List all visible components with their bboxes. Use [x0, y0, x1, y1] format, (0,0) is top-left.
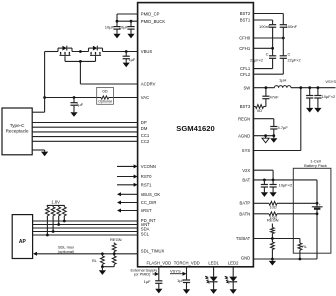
svg-text:SCL: SCL [141, 232, 150, 237]
wire BST3 pin to resistor [253, 106, 255, 108]
svg-text:AP: AP [19, 239, 27, 245]
wire GND pin line to pack [253, 258, 317, 260]
ground under C6 [183, 289, 190, 294]
wire SBU [32, 131, 137, 133]
svg-text:Optional: Optional [98, 100, 112, 104]
capacitor C13 47nF bootstrap [262, 95, 269, 97]
wire branch2 fly cap to CFL2 [282, 58, 284, 74]
svg-text:SW: SW [243, 85, 250, 90]
svg-text:PMID_CP: PMID_CP [141, 12, 160, 17]
wire bus line 4 [33, 231, 138, 233]
capacitor C5 1uF on FLASH_VDD [155, 280, 162, 282]
wire BATN sense line [253, 213, 269, 215]
svg-text:47nF: 47nF [270, 95, 280, 100]
wire TS/BAT pin line [253, 238, 300, 240]
op-amp U1 SGM41620 charger IC body [138, 3, 254, 267]
wire BST2 to branch [253, 13, 283, 15]
capacitor C3 1uF on VBUS [125, 52, 127, 56]
node junction R3 to bus [52, 230, 55, 233]
arrow VSYS into TORCH_VDD node [170, 273, 184, 275]
svg-text:VCONN: VCONN [141, 164, 156, 169]
svg-text:VAC: VAC [141, 95, 149, 100]
svg-text:nRST: nRST [141, 208, 152, 213]
wire nRST output arrow [120, 210, 138, 212]
capacitor C4 1uF on VAC [73, 98, 75, 103]
svg-text:Battery Pack: Battery Pack [304, 163, 327, 168]
node junction R2 to SCL [46, 234, 49, 237]
svg-text:+: + [319, 203, 321, 207]
node junction VBUS at C3 [125, 50, 128, 53]
svg-text:0Ω: 0Ω [102, 89, 107, 94]
wire TS to NTC in pack [299, 239, 301, 244]
wire cell minus down to pack ground [316, 209, 318, 259]
svg-text:ACDRV: ACDRV [141, 82, 156, 87]
svg-text:BST2: BST2 [240, 11, 251, 16]
svg-text:nBUS_OK: nBUS_OK [141, 192, 161, 197]
svg-text:C: C [266, 51, 269, 56]
resistor R4 pull-up [58, 205, 60, 207]
ground on GND net [271, 259, 273, 261]
node junction CFH0 branch2 [282, 37, 285, 40]
wire Type-C GND stub [32, 149, 44, 151]
ground under C12 [314, 108, 321, 113]
wire branch1 C7 to CFH1 [272, 27, 274, 55]
node junction AGND open ground [264, 134, 267, 137]
svg-text:1µF: 1µF [177, 278, 185, 283]
svg-text:REGN: REGN [267, 218, 279, 223]
wire branch2 C8 to fly cap [282, 27, 284, 55]
Type-C receptacle connector box [2, 108, 32, 155]
wire PMID_BUCK from U1 [117, 20, 138, 22]
node junction R4 to nINT [57, 223, 60, 226]
svg-text:DM: DM [141, 126, 148, 131]
wire CFH0 pin [253, 37, 283, 39]
ground for REGN cap [273, 136, 275, 139]
svg-text:10µF: 10µF [105, 25, 115, 30]
wire gate bus to ACDRV pin [79, 61, 81, 84]
resistor R8 SDL mux lower [113, 254, 115, 256]
wire nBUS_OK output arrow [120, 193, 138, 195]
svg-text:0Ω: 0Ω [257, 109, 262, 113]
svg-text:BAT: BAT [242, 178, 250, 183]
capacitor C2 10uF on PMID [130, 21, 132, 26]
resistor R14 NTC thermistor in pack [298, 243, 302, 250]
wire gate bus of Q1 Q2 [64, 57, 66, 62]
wire DP [32, 122, 137, 124]
node junction BAT at C15 [263, 179, 266, 182]
capacitor C11 10uF on VSYS [309, 88, 311, 96]
ground under C5 [155, 289, 162, 294]
node junction R5 to PD_INT [63, 220, 66, 223]
svg-text:TS/BAT: TS/BAT [236, 236, 251, 241]
capacitor C1 10uF on PMID_CP/PMID_BUCK [116, 21, 118, 26]
resistor R11 10ohm BATN [269, 212, 277, 216]
svg-text:1µF: 1µF [76, 102, 84, 107]
svg-text:FLASH_VDD: FLASH_VDD [146, 261, 171, 266]
resistor R1 0ohm optional in VAC line [101, 96, 109, 99]
wire nINT bus line [33, 224, 138, 226]
svg-text:10µF: 10µF [119, 25, 129, 30]
capacitor C8 100nF BST2 branch [280, 24, 287, 26]
wire VCONN input arrow [117, 165, 135, 167]
wire V2X pin to BAT [253, 169, 273, 171]
wire PD_INT bus line [33, 220, 138, 222]
node junction BATP at cell [316, 202, 319, 205]
resistor R12 TS pull-up from REGN [271, 224, 273, 228]
svg-text:SYS: SYS [242, 148, 251, 153]
ground under C16 [270, 192, 277, 197]
node junction VAC tap on input [43, 96, 46, 99]
wire RST1 input arrow [117, 184, 135, 186]
wire FLASH_VDD down [158, 267, 160, 281]
svg-text:VSYS: VSYS [170, 268, 181, 273]
svg-text:1µF: 1µF [128, 57, 136, 62]
ground under C4 [70, 112, 77, 117]
wire CC1 [32, 136, 137, 138]
node junction CFH1 branch1 [271, 47, 274, 50]
wire BAT pin to battery [253, 179, 317, 181]
node junction BATN at cell [316, 212, 319, 215]
svg-text:10µF×2: 10µF×2 [279, 183, 294, 188]
node junction BAT at V2X [272, 179, 275, 182]
ground under C11 [306, 108, 313, 113]
resistor R9 0ohm on BST3 [256, 105, 264, 109]
ground under C2 [127, 34, 134, 39]
svg-text:CC_DIR: CC_DIR [141, 200, 157, 205]
svg-text:CC1: CC1 [141, 133, 150, 138]
svg-text:4.7µF: 4.7µF [278, 125, 289, 130]
svg-text:100nF: 100nF [259, 24, 271, 29]
svg-text:REGN: REGN [110, 237, 122, 242]
ground under C3 [123, 63, 130, 68]
wire SW from U1 [253, 87, 274, 89]
transistor Q1 reverse-blocking MOSFET [57, 48, 59, 51]
svg-text:REGN: REGN [238, 116, 250, 121]
wire BST1 to branch [253, 19, 272, 21]
svg-text:VBUS: VBUS [141, 49, 153, 54]
wire C13 to SW node [265, 88, 267, 97]
svg-text:LED1: LED1 [208, 261, 219, 266]
wire AGND pin [253, 135, 273, 137]
wire REGN pin [253, 118, 273, 120]
wire VBUS line from Type-C to U1 VBUS pin [45, 51, 58, 53]
resistor R5 pull-up [63, 205, 65, 207]
svg-text:(optional): (optional) [58, 249, 75, 254]
node junction gate bus [79, 60, 82, 63]
node junction VSYS at C11 [308, 86, 311, 89]
wire CC2 [32, 140, 137, 142]
AP host processor box [12, 215, 32, 259]
ground for Type-C shield [41, 152, 48, 157]
svg-text:DP: DP [141, 120, 147, 125]
node junction VSYS trunk [299, 86, 302, 89]
wire CFL2 pin [253, 73, 283, 75]
wire CFL1 pin [253, 68, 272, 70]
node junction SDL at R7 [101, 252, 104, 255]
wire SDA bus line [33, 227, 138, 229]
svg-text:CFL2: CFL2 [240, 72, 251, 77]
node junction SW at bootstrap [265, 86, 268, 89]
capacitor C16 10uF on BAT [272, 180, 274, 184]
wire Type-C VBUS stub up to FET chain [32, 111, 44, 113]
svg-text:RST0: RST0 [141, 174, 152, 179]
svg-text:(or PMID): (or PMID) [134, 273, 151, 277]
ground AGND open symbol [265, 136, 267, 139]
battery BT1 single cell symbol [312, 206, 323, 208]
wire BATP sense line [253, 202, 269, 204]
wire SCL bus line [33, 234, 138, 236]
svg-text:GND: GND [241, 256, 250, 261]
svg-text:RST1: RST1 [141, 182, 152, 187]
diode LED2 flash LED [232, 267, 234, 277]
svg-text:1.8V: 1.8V [51, 200, 60, 205]
svg-text:CFL1: CFL1 [240, 66, 251, 71]
node junction PMID at C1 [116, 20, 119, 23]
node junction SDL at R6 [113, 252, 116, 255]
wire BAT down to cell plus [316, 180, 318, 207]
svg-text:1µF: 1µF [144, 279, 152, 284]
wire SYS pin to VSYS trunk [253, 150, 300, 152]
capacitor C15 10uF on BAT [263, 180, 265, 184]
svg-text:BATP: BATP [240, 201, 251, 206]
capacitor C14 4.7uF on REGN [270, 126, 277, 128]
ground under C1 [113, 34, 120, 39]
wire SDL mux bottom rail [102, 266, 114, 268]
svg-text:C: C [288, 51, 291, 56]
capacitor C9 flying cap 22uFx2 branch1 [269, 55, 276, 57]
wire VAC line from VBUS input to U1 VAC pin [45, 97, 101, 99]
resistor R2 pull-up [46, 205, 48, 207]
svg-text:Receptacle: Receptacle [6, 128, 29, 133]
ground under C15 [261, 192, 268, 197]
node junction GND at R13 [271, 258, 274, 261]
wire C14 to AGND line [273, 129, 275, 136]
wire PMID_CP from U1 to bend [117, 13, 138, 15]
svg-text:100nF: 100nF [286, 24, 298, 29]
diode LED1 flash LED [213, 267, 215, 277]
svg-text:TORCH_VDD: TORCH_VDD [174, 261, 200, 266]
svg-text:PMID_BUCK: PMID_BUCK [141, 19, 166, 24]
wire RST0 input arrow [117, 176, 135, 178]
svg-text:AGND: AGND [238, 133, 250, 138]
svg-text:CFH1: CFH1 [239, 46, 251, 51]
wire CC_DIR output arrow [120, 202, 138, 204]
resistor R7 SDL mux lower [101, 254, 103, 256]
svg-text:CFH0: CFH0 [239, 36, 251, 41]
svg-text:22µF×2: 22µF×2 [250, 58, 263, 62]
svg-text:RL: RL [92, 259, 97, 263]
svg-text:BST3: BST3 [240, 104, 251, 109]
node junction VAC at C4 [73, 96, 76, 99]
capacitor C12 10uF on VSYS [317, 88, 319, 96]
optional resistor box [97, 87, 114, 104]
resistor R10 10ohm BATP [269, 201, 277, 205]
node junction TS at divider [271, 237, 274, 240]
svg-text:1µH: 1µH [279, 78, 287, 83]
svg-text:22µF×2: 22µF×2 [288, 58, 301, 62]
svg-text:V2X: V2X [242, 168, 250, 173]
svg-text:SGM41620: SGM41620 [176, 124, 214, 133]
svg-text:CC2: CC2 [141, 139, 150, 144]
resistor R6 SDL pull-up from REGN [113, 242, 115, 243]
svg-text:BATN: BATN [239, 211, 250, 216]
node junction between Q1 and Q2 [79, 50, 82, 53]
wire TORCH_VDD down [186, 267, 188, 280]
wire DM [32, 126, 137, 128]
svg-text:Type-C: Type-C [10, 123, 25, 128]
wire SDL_TIMUX line to AP with arrow [36, 253, 138, 255]
ground under SDL mux [99, 270, 106, 275]
svg-text:LED2: LED2 [228, 261, 239, 266]
svg-text:10µF×2: 10µF×2 [322, 94, 336, 99]
battery pack box 1-Cell [293, 168, 331, 253]
wire BST3 to C13 [264, 106, 266, 108]
transistor Q2 reverse-blocking MOSFET [88, 48, 90, 51]
svg-text:RL: RL [302, 245, 307, 249]
svg-text:SDL_TIMUX: SDL_TIMUX [141, 248, 165, 253]
wire branch1 fly cap to CFL1 [272, 58, 274, 68]
inductor L1 1uH [274, 86, 291, 88]
wire VSYS line after inductor [291, 87, 336, 89]
capacitor C10 flying cap 22uFx2 branch2 [280, 55, 287, 57]
node junction rail [101, 265, 104, 268]
capacitor C6 1uF on TORCH_VDD [183, 279, 190, 281]
svg-text:BST1: BST1 [240, 18, 251, 23]
wire rail to ground [101, 267, 103, 271]
arrow external supply into FLASH_VDD node [153, 273, 156, 275]
node junction VSYS at C12 [317, 86, 320, 89]
svg-text:10Ω: 10Ω [269, 205, 276, 209]
node junction C14 AGND [272, 134, 275, 137]
resistor R13 TS lower divider [271, 239, 273, 243]
capacitor C7 100nF BST1 branch [269, 24, 276, 26]
wire CFH1 pin [253, 47, 272, 49]
node junction PMID at C2 [130, 20, 133, 23]
wire 1.8V rail [47, 204, 65, 206]
svg-text:VSYS: VSYS [325, 79, 336, 84]
node junction GND at NTC [299, 258, 302, 261]
resistor R3 pull-up [52, 205, 54, 207]
